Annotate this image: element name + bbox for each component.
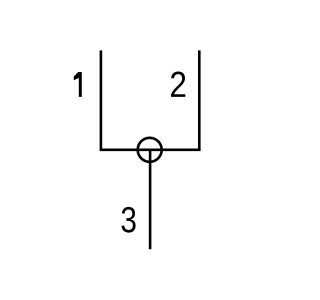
- junction circle: [138, 138, 162, 162]
- pin label 3: [122, 207, 136, 233]
- wire pin 2 lead: [198, 50, 201, 149]
- wire pin 1 lead: [100, 50, 103, 149]
- pin label 2: [171, 72, 185, 97]
- wire pin 3 lead: [149, 150, 152, 249]
- pin label 1: [74, 72, 82, 97]
- wire horizontal bus: [100, 149, 201, 152]
